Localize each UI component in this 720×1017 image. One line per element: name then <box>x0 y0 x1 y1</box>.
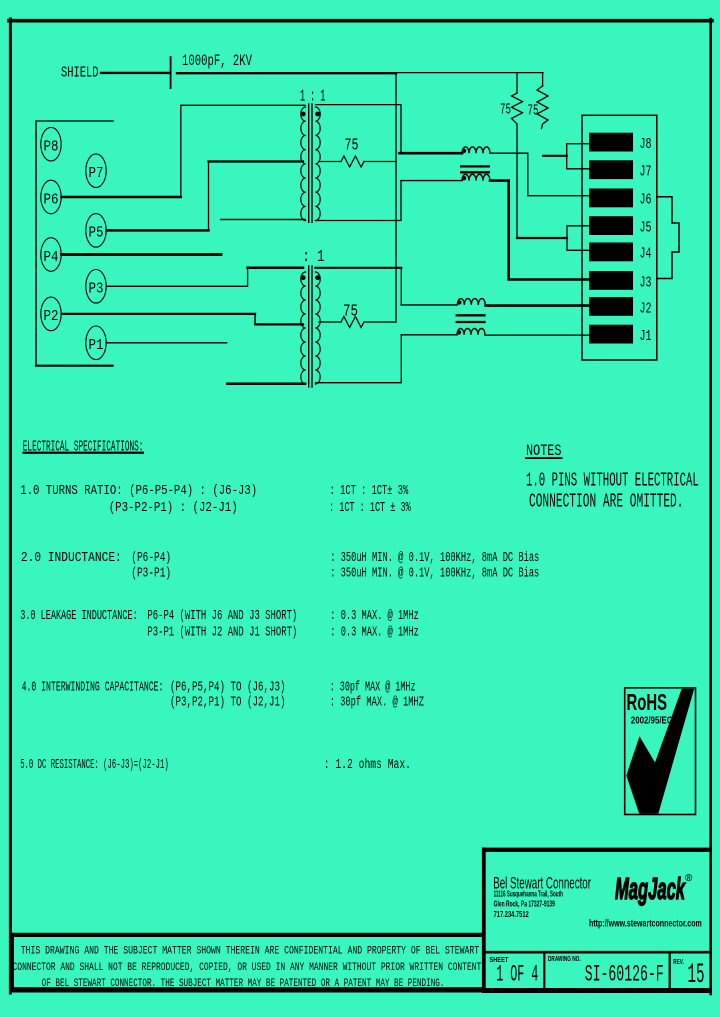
connector right tab <box>657 197 679 279</box>
svg-text:P7: P7 <box>89 165 104 182</box>
svg-text:SI-60126-F: SI-60126-F <box>585 962 664 988</box>
disclaimer text <box>13 946 482 991</box>
T2 secondary polarity dot <box>315 275 320 280</box>
RoHS logo box <box>625 688 696 815</box>
svg-text:5.0 DC RESISTANCE: (J6-J3)=(J2: 5.0 DC RESISTANCE: (J6-J3)=(J2-J1) <box>20 758 169 773</box>
svg-text:75: 75 <box>500 102 511 119</box>
svg-text:J1: J1 <box>640 328 652 345</box>
svg-text:2.0 INDUCTANCE:: 2.0 INDUCTANCE: <box>21 551 122 566</box>
wire P1 (ends open) <box>107 342 227 344</box>
T1 secondary polarity dot <box>315 112 320 117</box>
resistor R4 75 (T2 secondary center tap) <box>319 317 396 328</box>
choke L2 start curl top <box>457 300 461 304</box>
wire T1 secondary top lead <box>316 105 402 154</box>
svg-text:RoHS: RoHS <box>627 689 668 715</box>
svg-text:J4: J4 <box>640 246 652 263</box>
pin P7 <box>86 154 106 188</box>
svg-text:J5: J5 <box>640 220 652 237</box>
wire P4 (ends open) <box>62 253 221 256</box>
svg-text:: 0.3 MAX. @ 1MHz: : 0.3 MAX. @ 1MHz <box>330 609 419 624</box>
svg-text:(P3-P1): (P3-P1) <box>131 567 171 582</box>
disclaimer box <box>10 935 483 993</box>
connector J housing <box>582 115 657 360</box>
svg-text:J8: J8 <box>640 136 652 153</box>
wire choke L2 top output to J2 (thick) <box>486 304 589 307</box>
T1 primary winding <box>301 107 306 221</box>
P-side housing bracket <box>36 121 113 366</box>
choke L2 core <box>456 315 486 322</box>
choke L2 bottom coil <box>457 328 485 334</box>
pin J8 <box>589 133 633 152</box>
svg-text:P2: P2 <box>44 308 59 325</box>
T2 core <box>308 266 310 387</box>
svg-text:MagJack: MagJack <box>615 871 686 906</box>
choke L2 start curl bottom <box>457 330 461 334</box>
pin P2 <box>41 297 61 331</box>
wire shield to capacitor <box>101 72 169 74</box>
svg-text:P6: P6 <box>44 191 59 208</box>
wire P2 to T2 primary center tap <box>62 313 256 315</box>
pin P6 <box>41 180 61 214</box>
svg-text:: 350uH MIN. @ 0.1V, 100KHz, 8: : 350uH MIN. @ 0.1V, 100KHz, 8mA DC Bias <box>330 551 539 566</box>
pin P3 <box>86 270 106 304</box>
T2 primary winding <box>301 272 306 384</box>
pin J6 <box>589 189 633 208</box>
page border top <box>9 19 712 23</box>
svg-text:4.0 INTERWINDING CAPACITANCE:: 4.0 INTERWINDING CAPACITANCE: <box>22 681 164 696</box>
svg-text:(P3-P2-P1) : (J2-J1): (P3-P2-P1) : (J2-J1) <box>109 501 238 516</box>
T1 secondary winding <box>315 107 320 221</box>
wire P3 to T2 primary top <box>107 268 248 287</box>
wire P6 to T1 primary top <box>62 196 181 199</box>
svg-text:: 1CT : 1CT ± 3%: : 1CT : 1CT ± 3% <box>329 501 411 516</box>
pin P1 <box>86 326 106 360</box>
resistor R2 75 (dangling from shield bus) <box>537 73 548 129</box>
wire shield bus thin part to right <box>396 72 543 74</box>
pin J5 <box>589 216 633 235</box>
wire T1 secondary top to choke L1 (thick) <box>400 152 463 155</box>
svg-text:J7: J7 <box>640 164 652 181</box>
svg-text:DRAWING NO.: DRAWING NO. <box>548 954 581 963</box>
svg-text:®: ® <box>685 873 693 884</box>
svg-text:3.0 LEAKAGE INDUCTANCE:: 3.0 LEAKAGE INDUCTANCE: <box>20 609 138 624</box>
svg-text:P4: P4 <box>44 249 59 266</box>
RoHS logo checkmark <box>626 689 694 814</box>
svg-text:CONNECTOR AND SHALL NOT BE REP: CONNECTOR AND SHALL NOT BE REPRODUCED, C… <box>13 962 482 974</box>
svg-text:J6: J6 <box>640 192 652 209</box>
wire T1 primary bottom lead <box>221 219 305 221</box>
svg-text:http://www.stewartconnector.co: http://www.stewartconnector.com <box>589 918 702 930</box>
svg-text:OF BEL STEWART CONNECTOR. THE: OF BEL STEWART CONNECTOR. THE SUBJECT MA… <box>42 978 445 990</box>
svg-text:: 30pf MAX. @ 1MHZ: : 30pf MAX. @ 1MHZ <box>330 696 424 711</box>
svg-text:SHIELD: SHIELD <box>61 65 99 82</box>
wire choke L1 bottom output to J3 (thick) <box>490 181 589 280</box>
svg-text:1000pF, 2KV: 1000pF, 2KV <box>182 52 252 70</box>
wire T1 secondary bottom lead <box>316 181 402 221</box>
svg-text:75: 75 <box>528 103 539 120</box>
J5/J4 bracket <box>567 226 589 251</box>
wire R1 to J5/J4 bracket <box>517 237 567 239</box>
page border right <box>709 19 712 994</box>
pin P5 <box>86 214 106 248</box>
resistor R3 75 (T1 secondary center tap) <box>319 156 396 167</box>
T1 core <box>308 104 310 222</box>
choke L2 top coil <box>457 299 485 335</box>
svg-text:75: 75 <box>343 303 358 322</box>
T2 primary polarity dot <box>301 275 306 280</box>
wire choke L2 bottom output to J1 <box>485 334 589 336</box>
svg-text:J2: J2 <box>640 301 652 318</box>
pin J1 <box>589 325 633 344</box>
svg-text:(P3,P2,P1) TO (J2,J1): (P3,P2,P1) TO (J2,J1) <box>170 696 286 711</box>
transformer T1 <box>301 104 320 222</box>
svg-text:P6-P4 (WITH J6 AND J3 SHORT): P6-P4 (WITH J6 AND J3 SHORT) <box>147 609 297 624</box>
svg-text:J3: J3 <box>640 275 652 292</box>
svg-text:P1: P1 <box>89 337 104 354</box>
page border left <box>9 19 12 993</box>
svg-text:: 350uH MIN. @ 0.1V, 100KHz, 8: : 350uH MIN. @ 0.1V, 100KHz, 8mA DC Bias <box>330 567 539 582</box>
wire T1 secondary bottom to choke L1 <box>401 180 462 182</box>
svg-text:CONNECTION ARE OMITTED.: CONNECTION ARE OMITTED. <box>529 491 684 513</box>
choke L1 core <box>460 166 490 172</box>
wire to J8/J7 bracket <box>543 155 567 157</box>
svg-text:717.234.7512: 717.234.7512 <box>494 910 529 919</box>
svg-text:11116 Susquehanna Trail, South: 11116 Susquehanna Trail, South <box>494 890 563 899</box>
svg-text:Glen Rock, Pa 17327-9139: Glen Rock, Pa 17327-9139 <box>494 900 556 909</box>
T2 secondary winding <box>315 272 320 384</box>
svg-text:P8: P8 <box>44 139 59 156</box>
svg-text:P3-P1 (WITH J2 AND J1 SHORT): P3-P1 (WITH J2 AND J1 SHORT) <box>147 626 297 641</box>
svg-text:1.0 PINS WITHOUT ELECTRICAL: 1.0 PINS WITHOUT ELECTRICAL <box>526 470 699 492</box>
svg-text:THIS DRAWING AND THE SUBJECT M: THIS DRAWING AND THE SUBJECT MATTER SHOW… <box>21 946 480 958</box>
svg-text:(P6-P4): (P6-P4) <box>131 551 171 566</box>
svg-text:: 1.2 ohms Max.: : 1.2 ohms Max. <box>324 758 411 773</box>
svg-text:1 OF 4: 1 OF 4 <box>496 962 538 988</box>
spec line 1.0 <box>20 484 539 773</box>
capacitor C1 plate <box>170 57 172 88</box>
svg-text:: 30pf MAX @ 1MHz: : 30pf MAX @ 1MHz <box>330 681 416 696</box>
svg-text:REV.: REV. <box>673 957 684 966</box>
wire T2 secondary top lead <box>316 267 402 269</box>
svg-text:P3: P3 <box>89 281 104 298</box>
pin P8 <box>41 127 61 161</box>
T1 primary polarity dot <box>301 112 306 117</box>
pin J7 <box>589 160 633 179</box>
wire T2 primary bottom lead <box>227 382 305 385</box>
svg-text:15: 15 <box>688 960 705 991</box>
pin P4 <box>41 238 61 272</box>
J8/J7 bracket <box>567 144 589 169</box>
wire choke L1 top output to J6 <box>490 153 589 196</box>
choke L1 start curl top <box>462 149 466 153</box>
svg-text:: 0.3 MAX. @ 1MHz: : 0.3 MAX. @ 1MHz <box>330 626 419 641</box>
svg-text:1.0 TURNS RATIO: (P6-P5-P4) :: 1.0 TURNS RATIO: (P6-P5-P4) : (J6-J3) <box>20 484 257 499</box>
transformer T2 <box>301 266 320 387</box>
pin J4 <box>589 243 633 262</box>
pin J3 <box>589 271 633 290</box>
pin J2 <box>589 297 633 316</box>
wire shield vertical bus <box>395 73 397 322</box>
svg-text:75: 75 <box>345 137 359 156</box>
title block frame <box>482 848 711 994</box>
svg-text:P5: P5 <box>89 225 104 242</box>
svg-text:(P6,P5,P4) TO (J6,J3): (P6,P5,P4) TO (J6,J3) <box>170 681 286 696</box>
svg-text:: 1CT : 1CT± 3%: : 1CT : 1CT± 3% <box>330 484 409 499</box>
svg-text:2002/95/EC: 2002/95/EC <box>631 714 673 726</box>
wire capacitor to shield bus (thick part) <box>177 72 396 74</box>
wire P5 to T1 primary center tap <box>107 229 209 232</box>
resistor R1 75 (shield to J5/J4) <box>512 73 523 238</box>
choke L1 start curl bottom <box>462 176 466 180</box>
choke L1 bottom coil <box>462 174 490 180</box>
svg-text:: 1: : 1 <box>303 248 325 267</box>
wire T2 secondary bottom lead <box>316 335 402 383</box>
choke L1 top coil <box>462 147 490 181</box>
